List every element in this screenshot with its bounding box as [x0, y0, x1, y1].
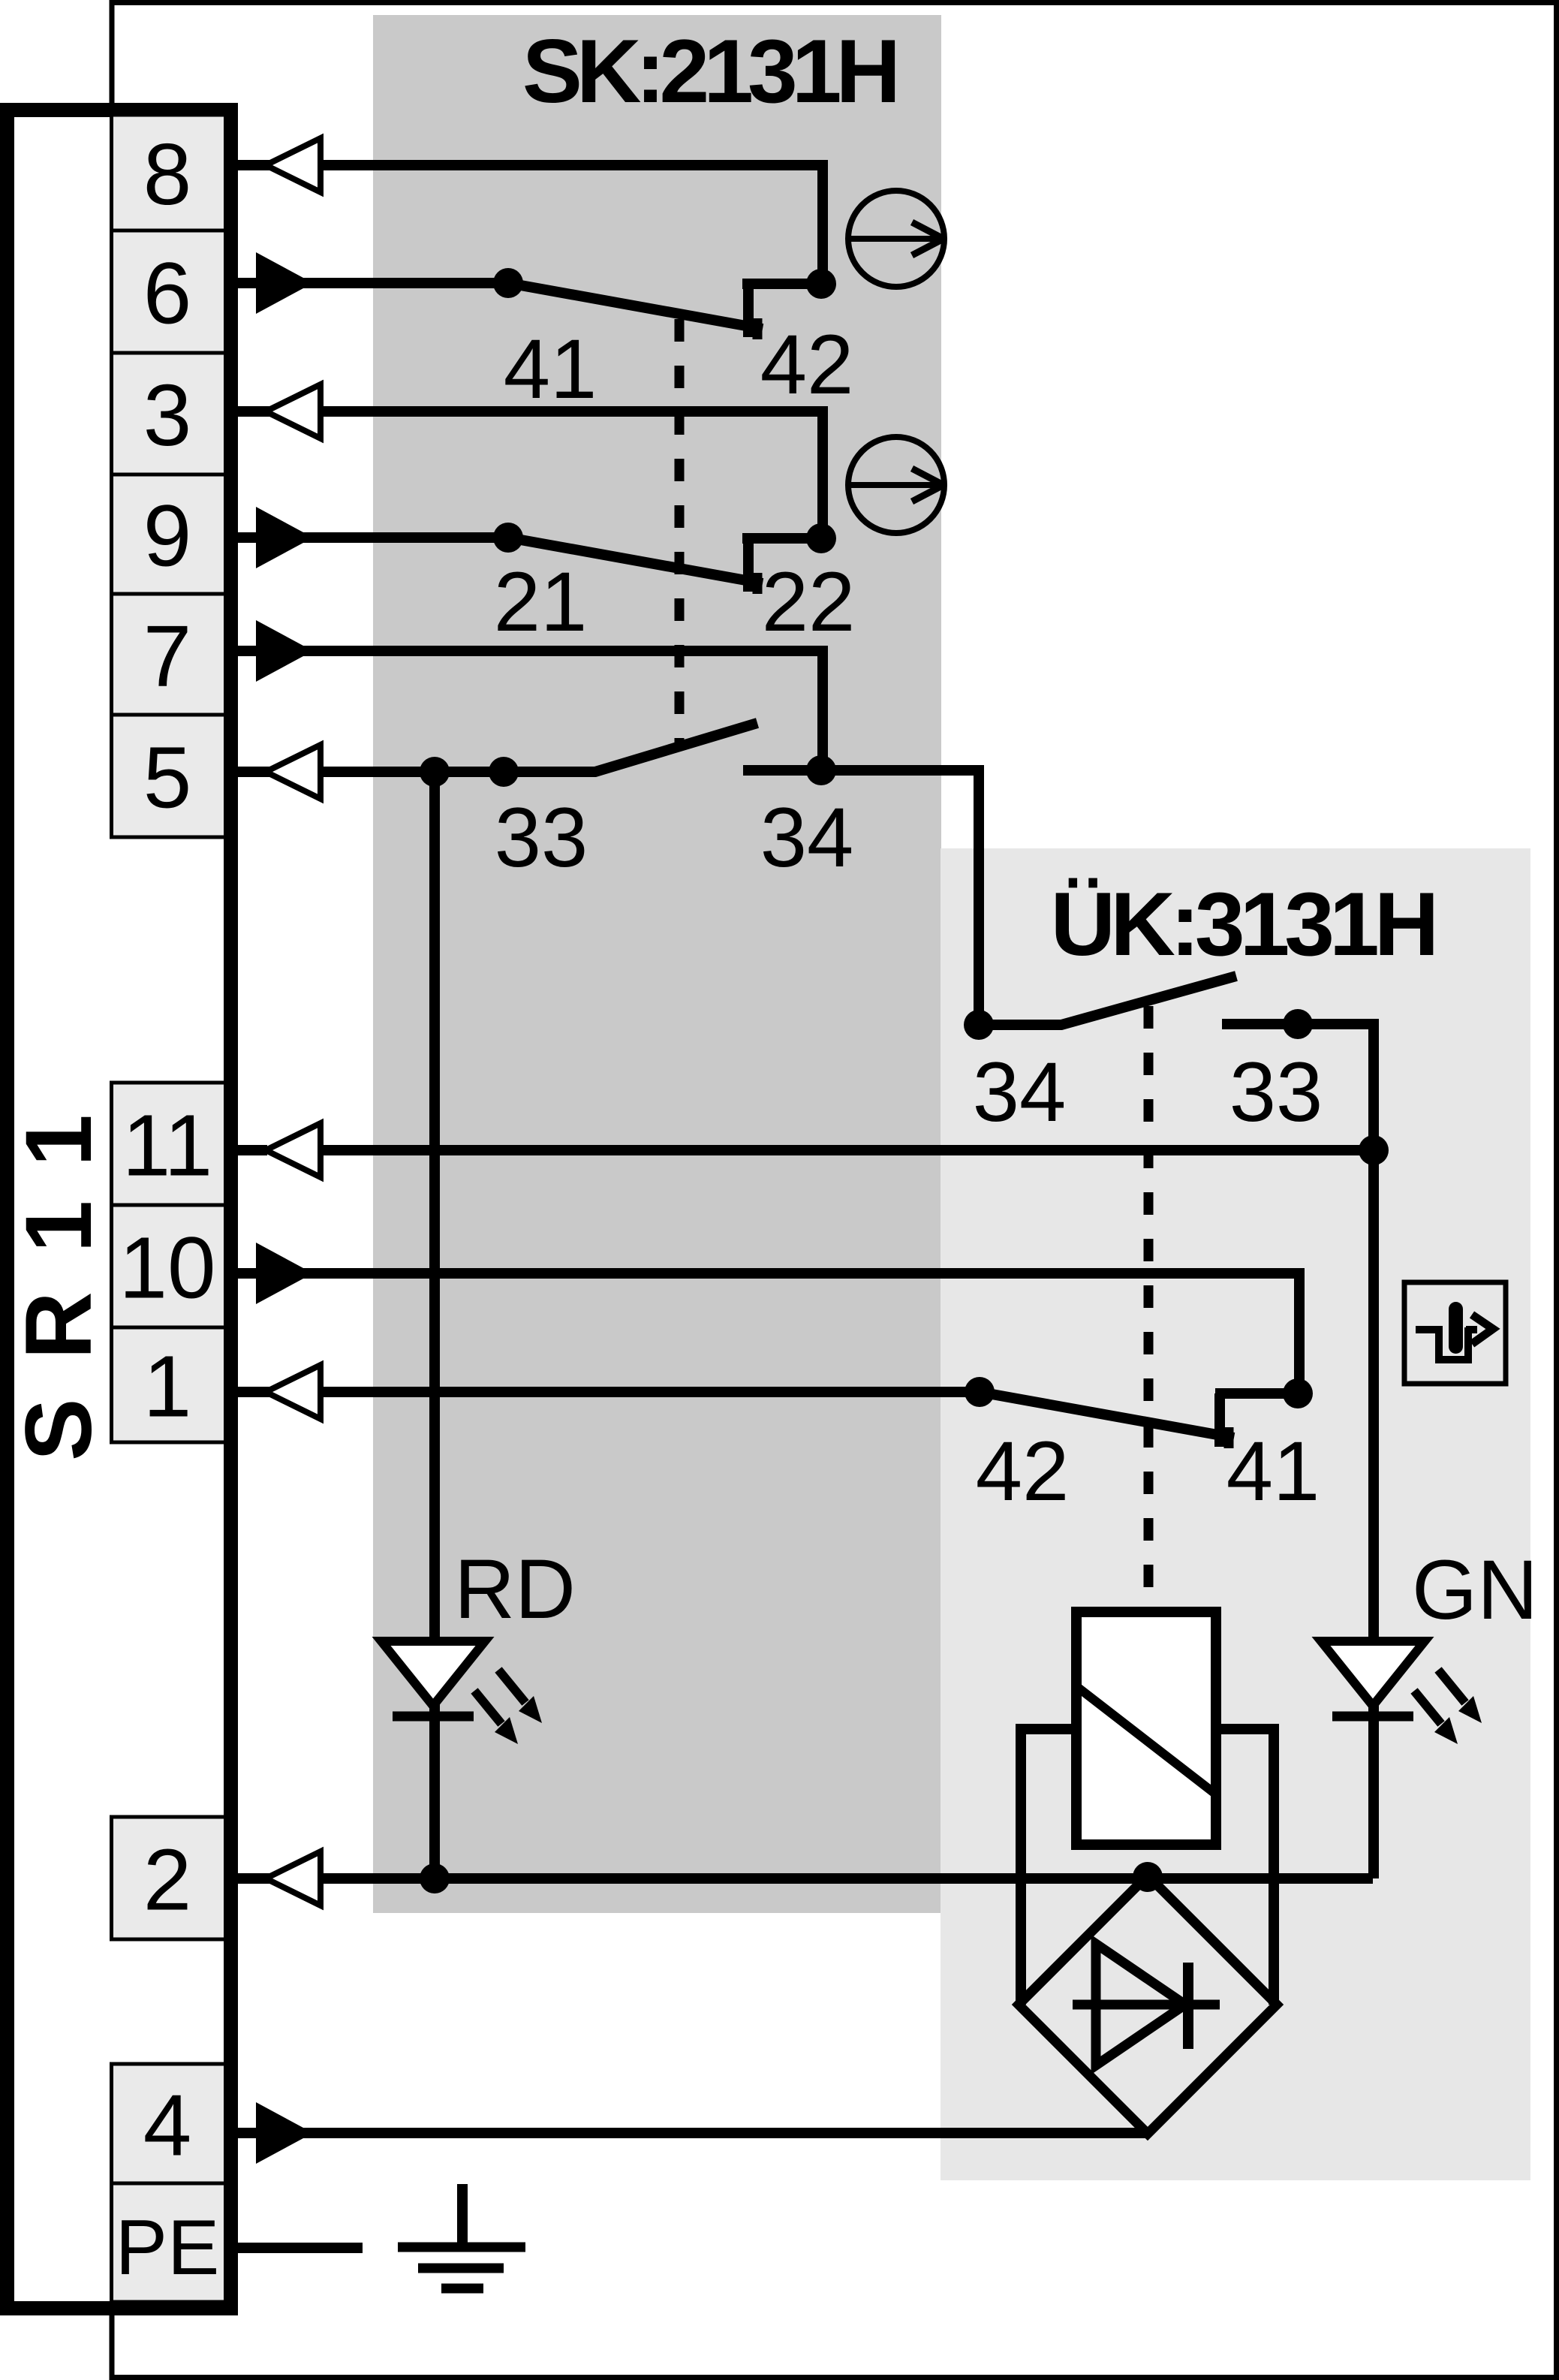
svg-text:SR11: SR11 — [7, 1075, 111, 1461]
svg-text:4: 4 — [143, 2077, 192, 2174]
svg-text:10: 10 — [119, 1219, 215, 1317]
junction node pin11/GN — [1359, 1135, 1389, 1165]
pin 3 terminal cell — [112, 353, 226, 474]
wire pin 10 to UEK contact 41 (over/down) — [238, 1273, 1299, 1393]
svg-text:PE: PE — [116, 2204, 220, 2291]
svg-text:41: 41 — [1226, 1424, 1320, 1518]
pin 1 terminal cell — [112, 1327, 226, 1442]
input arrow pin 11 — [238, 1123, 321, 1177]
label 33 — [495, 791, 588, 884]
svg-text:34: 34 — [973, 1045, 1067, 1139]
label SR11 — [7, 1075, 111, 1461]
pin PE terminal cell — [112, 2183, 226, 2302]
wire coil right to rectifier — [1216, 1729, 1274, 2005]
svg-text:9: 9 — [143, 487, 192, 585]
svg-text:41: 41 — [504, 322, 597, 416]
wire pin 5 to contact terminal 33 — [238, 767, 595, 777]
wire pin 2 common rail — [238, 1873, 1373, 1884]
contact SK 41-42 (NC) movable blade — [508, 283, 763, 339]
svg-text:6: 6 — [143, 245, 192, 342]
junction node RD branch — [420, 757, 450, 787]
actuator symbol circle 2 — [848, 437, 944, 533]
svg-text:ÜK:3131H: ÜK:3131H — [1051, 874, 1434, 975]
svg-text:7: 7 — [143, 607, 192, 705]
svg-text:42: 42 — [760, 318, 854, 411]
output arrow pin 4 — [256, 2102, 313, 2164]
svg-text:34: 34 — [760, 791, 854, 884]
pin 8 terminal cell — [112, 115, 226, 230]
pin 4 terminal cell — [112, 2064, 226, 2183]
junction UEK terminal 42 — [965, 1377, 995, 1407]
label UEK 41 — [1226, 1424, 1320, 1518]
pin 7 terminal cell — [112, 594, 226, 715]
svg-text:5: 5 — [143, 729, 192, 827]
pin 6 terminal cell — [112, 230, 226, 353]
contact SK 33-34 (NO) movable blade — [504, 723, 757, 772]
svg-text:33: 33 — [495, 791, 588, 884]
contact SK 21-22 fixed piece — [742, 538, 821, 592]
actuator symbol circle 1 — [848, 191, 944, 287]
junction terminal 21 — [493, 523, 523, 553]
connector SR11 body — [8, 110, 231, 2309]
contact UEK 42-41 (NC) movable blade — [980, 1392, 1234, 1448]
wire pin 7 to contact 34 (over/down) — [238, 651, 823, 770]
label UEK 33 — [1229, 1045, 1323, 1139]
svg-text:3: 3 — [143, 366, 192, 464]
LED RD (red indicator) — [381, 1641, 542, 1744]
contact UEK 34-33 (NO) movable blade — [979, 976, 1236, 1025]
junction terminal 22 — [806, 523, 836, 553]
rectifier diode symbol — [1073, 1944, 1220, 2065]
junction terminal 41 — [493, 268, 523, 298]
contact SK 21-22 (NC) movable blade — [508, 538, 763, 594]
input arrow pin 5 — [238, 745, 321, 799]
wire pin 9 to contact terminal 21 — [238, 532, 508, 543]
svg-text:GN: GN — [1412, 1543, 1538, 1637]
wire RD LED branch (pin 5 to pin 2) — [429, 772, 440, 1878]
input arrow pin 1 — [238, 1365, 321, 1419]
solenoid coil — [1076, 1612, 1216, 1845]
label 42 — [760, 318, 854, 411]
label UEK 34 — [973, 1045, 1067, 1139]
svg-text:8: 8 — [143, 125, 192, 223]
pin 5 terminal cell — [112, 715, 226, 837]
contact SK 41-42 fixed piece — [742, 284, 821, 337]
svg-text:42: 42 — [976, 1424, 1070, 1518]
bridge rectifier diamond — [1019, 1875, 1277, 2134]
wire pin 6 to contact terminal 41 — [238, 278, 508, 288]
junction node rectifier top — [1133, 1862, 1163, 1892]
junction node pin2/RD — [420, 1863, 450, 1893]
pin 9 terminal cell — [112, 474, 226, 594]
wire pin 8 to contact 42 (up/over/down) — [238, 165, 823, 284]
svg-text:11: 11 — [122, 1097, 212, 1195]
wire pin PE stub — [238, 2243, 363, 2253]
label 21 — [494, 555, 588, 649]
wire pin 3 to contact 22 (over/down) — [238, 411, 823, 538]
label SK:2131H — [522, 21, 895, 122]
label GN — [1412, 1543, 1538, 1637]
wire pin 4 to rectifier — [238, 2128, 1148, 2138]
junction UEK terminal 34 — [964, 1010, 994, 1040]
svg-text:SK:2131H: SK:2131H — [522, 21, 895, 122]
svg-text:1: 1 — [143, 1338, 192, 1436]
pin 10 terminal cell — [112, 1205, 226, 1327]
output arrow pin 7 — [256, 620, 313, 682]
wire pin 11 to node at GN branch — [321, 1145, 1374, 1155]
junction UEK terminal 33 — [1283, 1009, 1313, 1039]
pin 2 terminal cell — [112, 1817, 226, 1939]
junction terminal 33 — [489, 757, 519, 787]
svg-text:22: 22 — [762, 555, 856, 649]
junction terminal 34 — [806, 755, 836, 785]
input arrow pin 2 — [238, 1851, 321, 1906]
contact UEK 42-41 fixed piece — [1215, 1393, 1298, 1447]
label 22 — [762, 555, 856, 649]
LED GN (green indicator) — [1321, 1641, 1482, 1744]
mechanical linkage UEK (dashed) — [1144, 1006, 1154, 1616]
svg-text:RD: RD — [454, 1542, 576, 1636]
wire pin 1 to UEK contact terminal 42 — [238, 1387, 980, 1397]
label RD — [454, 1542, 576, 1636]
wire UEK 33 riser / GN LED branch — [1222, 1024, 1374, 1878]
output arrow pin 10 — [256, 1243, 313, 1304]
junction terminal 42 — [806, 269, 836, 299]
label UEK:3131H — [1051, 874, 1434, 975]
wire contact 34 to UEK contact 34 (over/down) — [743, 770, 979, 1025]
label 41 — [504, 322, 597, 416]
magnet actuator icon — [1404, 1282, 1506, 1384]
pin 11 terminal cell — [112, 1083, 226, 1205]
svg-text:21: 21 — [494, 555, 588, 649]
input arrow pin 8 — [238, 138, 321, 192]
junction UEK terminal 41 — [1283, 1378, 1313, 1408]
output arrow pin 6 — [256, 252, 313, 314]
input arrow pin 3 — [238, 384, 321, 438]
ground symbol — [398, 2184, 525, 2288]
svg-text:33: 33 — [1229, 1045, 1323, 1139]
mechanical linkage SK (dashed) — [675, 319, 685, 743]
UEK:3131H shaded area (tongue actuator block) — [941, 848, 1530, 2180]
label 34 — [760, 791, 854, 884]
SK:2131H shaded area (safety switch block) — [373, 15, 941, 1913]
svg-text:2: 2 — [143, 1831, 192, 1929]
output arrow pin 9 — [256, 507, 313, 568]
wire coil left to rectifier — [1021, 1729, 1076, 2005]
label UEK 42 — [976, 1424, 1070, 1518]
